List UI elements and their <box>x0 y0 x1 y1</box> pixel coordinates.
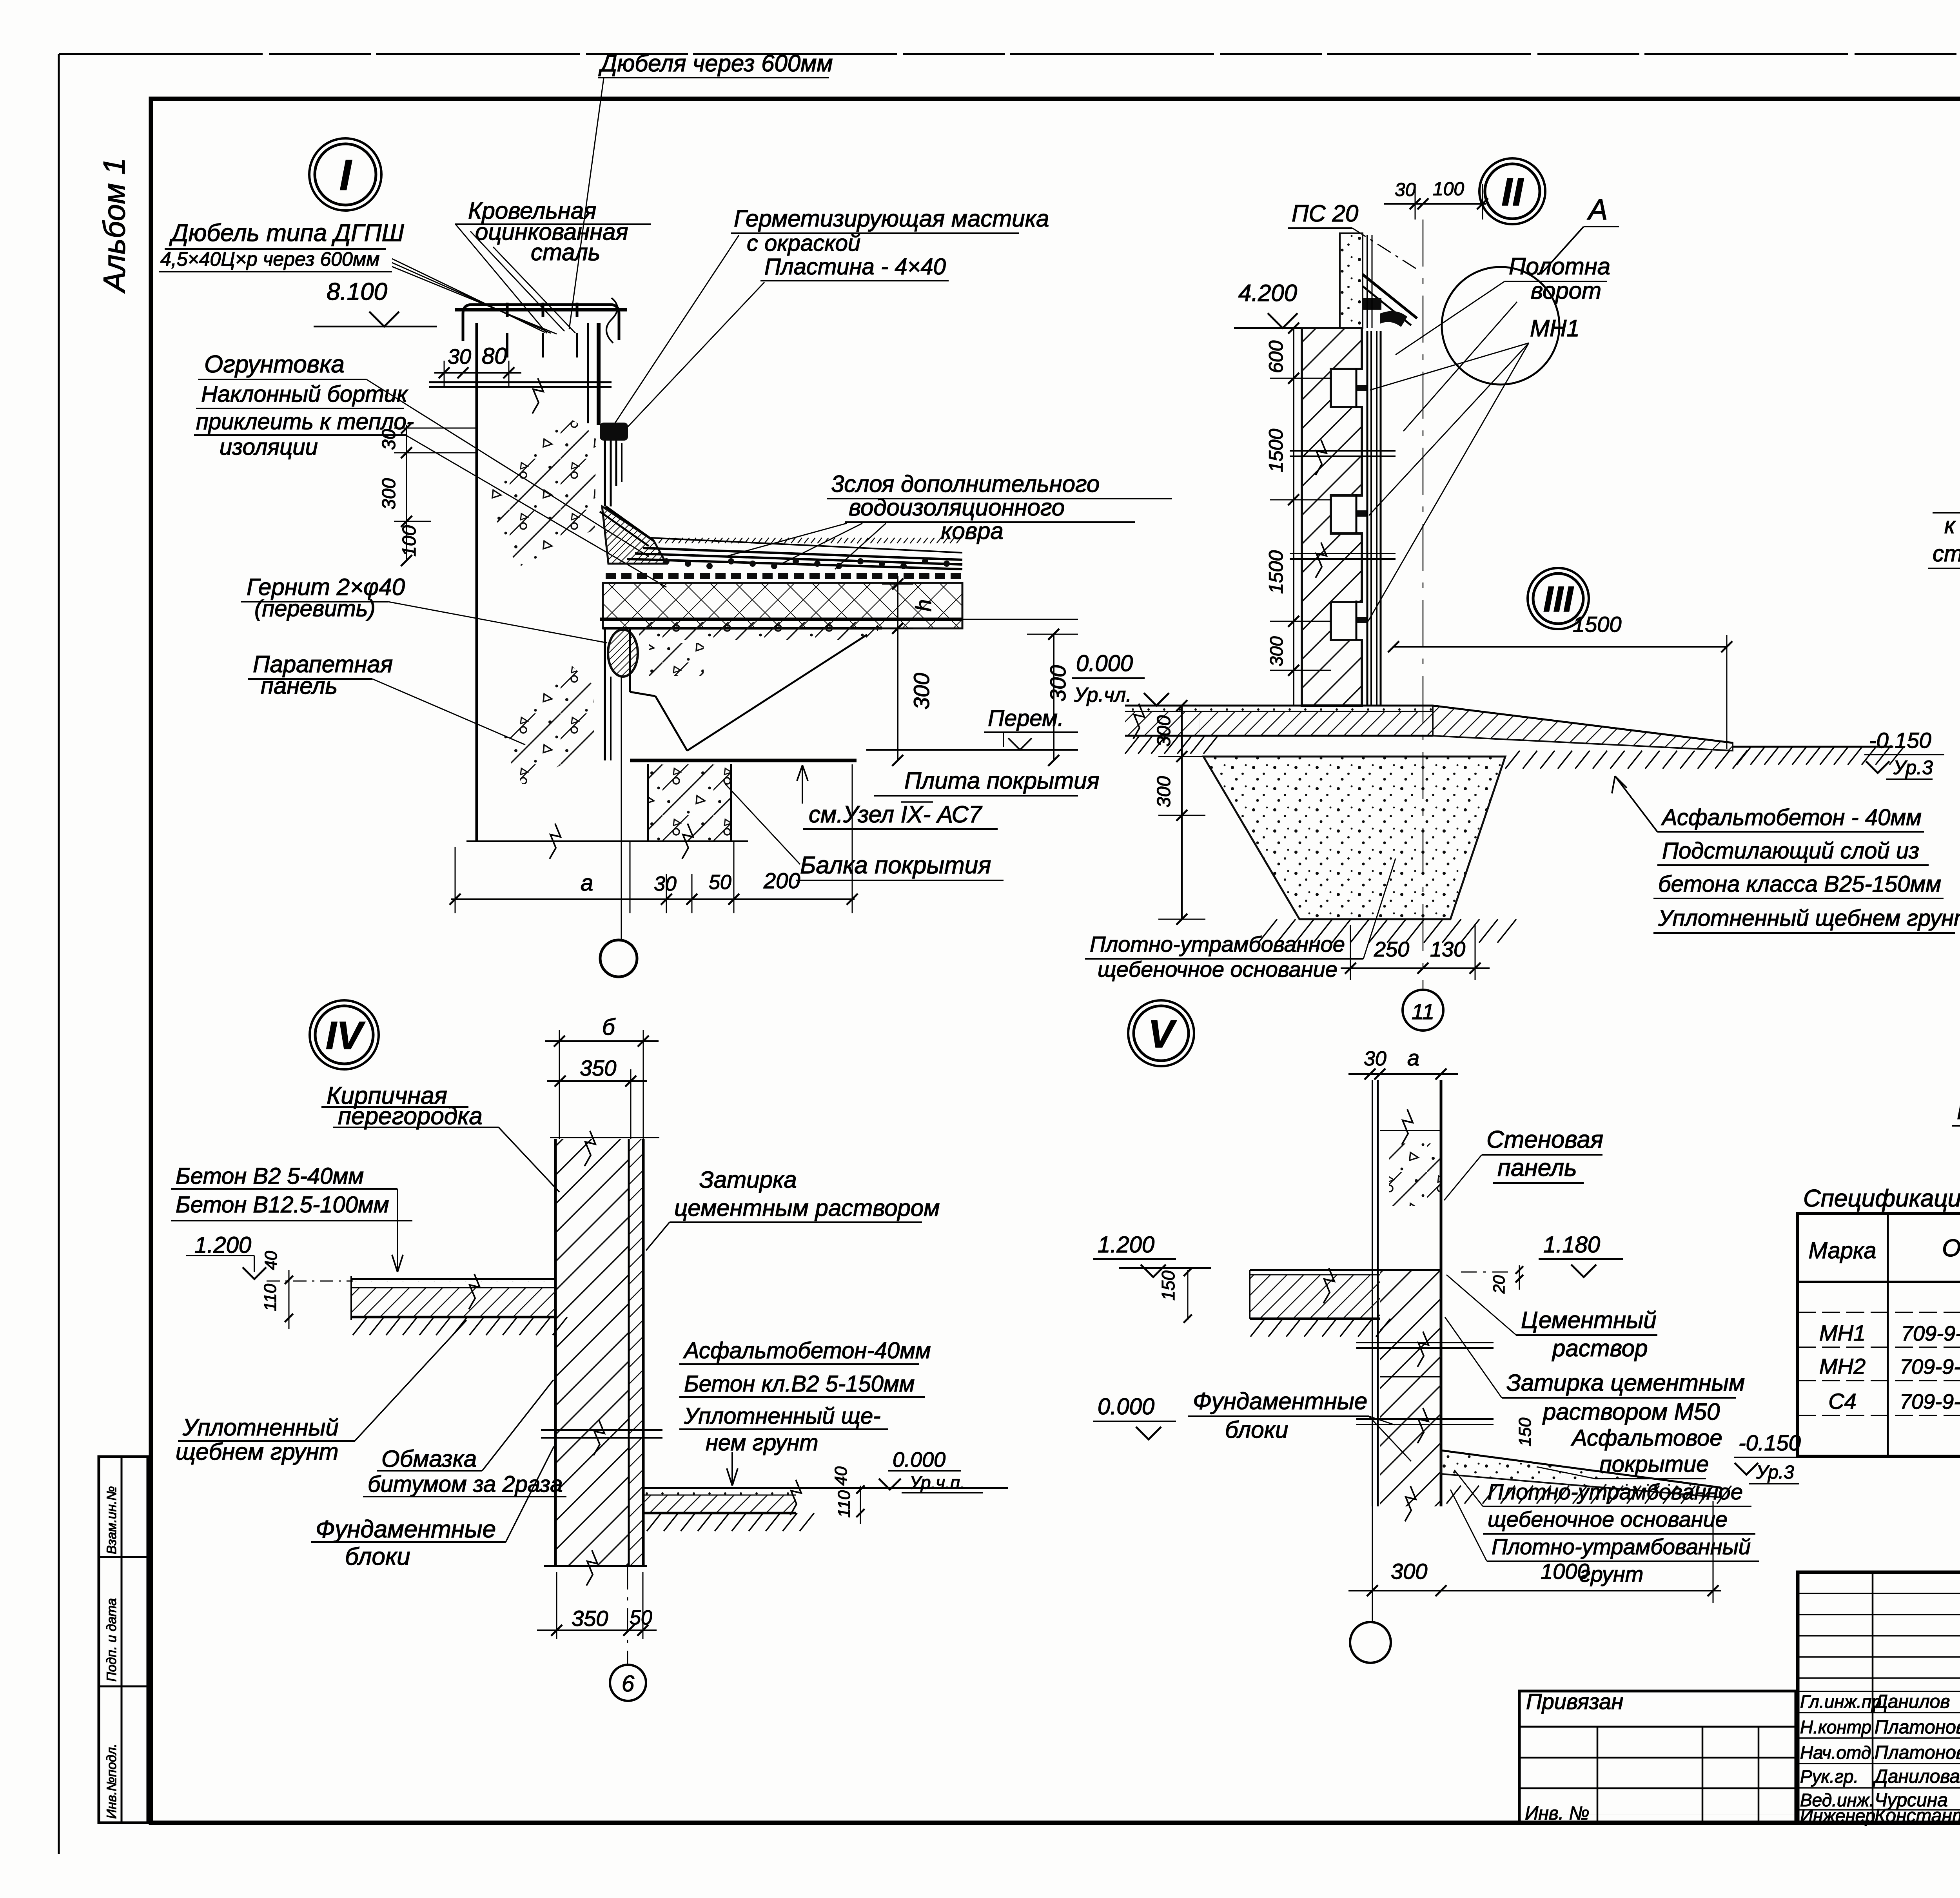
svg-text:Полотно: Полотно <box>1957 1098 1960 1124</box>
svg-text:30: 30 <box>1364 1047 1387 1070</box>
svg-text:Асфальтобетон - 40мм: Асфальтобетон - 40мм <box>1661 805 1922 830</box>
floor slab left (V) <box>1250 1269 1441 1271</box>
svg-text:150: 150 <box>1515 1417 1535 1446</box>
svg-text:Цементный: Цементный <box>1521 1307 1657 1333</box>
svg-text:V: V <box>1148 1012 1177 1056</box>
sloping apron right of wall <box>1433 706 1733 751</box>
left vertical dim chain of II <box>1293 328 1294 706</box>
parapet cap (rounded) <box>463 305 619 341</box>
concrete texture patch lower <box>492 662 594 784</box>
svg-text:МН1: МН1 <box>1530 315 1580 341</box>
ground hatch under foundation <box>1258 919 1277 943</box>
wall joint breaks (V) <box>1356 1342 1494 1343</box>
svg-text:350: 350 <box>572 1606 608 1631</box>
svg-text:-0.150: -0.150 <box>1739 1430 1801 1455</box>
svg-text:11: 11 <box>1412 999 1434 1024</box>
svg-text:1500: 1500 <box>1265 429 1287 472</box>
node circle (V) <box>1405 1486 1416 1521</box>
svg-text:водоизоляционного: водоизоляционного <box>849 494 1065 521</box>
svg-text:Фундаментные: Фундаментные <box>316 1516 496 1543</box>
svg-text:300: 300 <box>1045 665 1070 702</box>
svg-text:30: 30 <box>1395 180 1416 200</box>
svg-text:0.000: 0.000 <box>1098 1394 1154 1419</box>
svg-text:покрытие: покрытие <box>1599 1452 1709 1477</box>
outer thin margin border <box>59 53 1960 55</box>
right dim h/300 <box>897 576 898 760</box>
svg-text:Уплотненный щебнем грунт: Уплотненный щебнем грунт <box>1658 905 1960 931</box>
svg-text:Нач.отд.: Нач.отд. <box>1800 1742 1876 1763</box>
svg-text:20: 20 <box>1490 1275 1508 1294</box>
svg-text:битумом за 2раза: битумом за 2раза <box>368 1472 563 1497</box>
svg-text:сталь: сталь <box>531 239 600 265</box>
detail II marker circle <box>1479 158 1545 224</box>
right dim 300 slab <box>1053 634 1054 760</box>
below-zero dim chain <box>1181 706 1183 919</box>
svg-text:щебнем грунт: щебнем грунт <box>176 1439 339 1465</box>
svg-text:40: 40 <box>831 1466 851 1486</box>
svg-text:панель: панель <box>1497 1154 1577 1181</box>
svg-text:Инв.№подл.: Инв.№подл. <box>104 1744 119 1819</box>
svg-text:Уплотненный: Уплотненный <box>182 1414 339 1441</box>
wall bottom edge <box>544 1565 647 1567</box>
leaders from dowel label to cap <box>392 259 545 332</box>
svg-text:100: 100 <box>399 525 420 557</box>
svg-text:30: 30 <box>379 429 399 450</box>
svg-text:нем грунт: нем грунт <box>706 1430 818 1455</box>
svg-text:300: 300 <box>1154 715 1174 747</box>
svg-text:Данилов: Данилов <box>1873 1691 1950 1712</box>
svg-text:30: 30 <box>654 873 677 895</box>
svg-text:4.200: 4.200 <box>1238 280 1297 306</box>
svg-text:Обмазка: Обмазка <box>381 1446 477 1472</box>
svg-text:Ур.ч.п.: Ур.ч.п. <box>909 1472 965 1493</box>
beam below slab <box>648 764 731 841</box>
svg-text:0.000: 0.000 <box>893 1448 946 1472</box>
parapet wall panel <box>475 323 478 841</box>
svg-text:Подстилающий слой из: Подстилающий слой из <box>1662 838 1919 864</box>
membrane seam blobs <box>663 558 670 564</box>
svg-text:а: а <box>1407 1045 1419 1070</box>
svg-text:Плотно-утрамбованное: Плотно-утрамбованное <box>1090 932 1345 956</box>
node circle 6 <box>627 1566 628 1665</box>
svg-text:4,5×40Ц×р через 600мм: 4,5×40Ц×р через 600мм <box>160 248 379 270</box>
svg-text:1500: 1500 <box>1265 550 1287 594</box>
svg-text:Подп. и дата: Подп. и дата <box>104 1598 119 1682</box>
svg-text:40: 40 <box>261 1251 281 1270</box>
insulation crosshatch band <box>603 583 962 628</box>
title block frame <box>1798 1572 1960 1823</box>
svg-text:300: 300 <box>909 673 934 709</box>
svg-text:Балка покрытия: Балка покрытия <box>800 852 991 879</box>
svg-text:Затирка: Затирка <box>699 1167 797 1193</box>
svg-text:Дюбель типа ДГПШ: Дюбель типа ДГПШ <box>169 220 405 247</box>
svg-text:б: б <box>602 1014 616 1040</box>
svg-text:Обозначение: Обозначение <box>1942 1235 1960 1262</box>
svg-text:панель: панель <box>261 673 338 699</box>
vapor barrier dash band <box>606 573 616 579</box>
svg-text:Ур.чл.: Ур.чл. <box>1074 684 1132 706</box>
detail A callout circle <box>1442 267 1559 385</box>
svg-text:Инженер: Инженер <box>1800 1805 1875 1826</box>
svg-text:Рук.гр.: Рук.гр. <box>1800 1766 1858 1787</box>
membrane layers <box>643 548 962 560</box>
privyazan block <box>1519 1691 1796 1823</box>
svg-text:Платонова: Платонова <box>1875 1717 1960 1738</box>
svg-text:перегородка: перегородка <box>338 1103 483 1130</box>
signature row lines <box>1798 1691 1960 1692</box>
svg-text:350: 350 <box>580 1056 616 1080</box>
svg-text:709-9-80.87Ал.2АСИ-0047: 709-9-80.87Ал.2АСИ-0047 <box>1900 1390 1960 1414</box>
title block left empty grid rows <box>1798 1593 1960 1594</box>
svg-text:Фундаментные: Фундаментные <box>1193 1388 1367 1414</box>
embedded anchors in notches <box>1356 368 1357 408</box>
ledge double line <box>429 381 612 383</box>
svg-text:Герметизирующая мастика: Герметизирующая мастика <box>734 205 1049 232</box>
svg-text:Наклонный бортик: Наклонный бортик <box>201 381 408 407</box>
node circle below detail I <box>621 677 622 940</box>
title block left grid columns <box>1872 1572 1874 1823</box>
svg-text:Бетон В12.5-100мм: Бетон В12.5-100мм <box>176 1192 389 1218</box>
cap fastener ticks <box>506 303 509 317</box>
svg-text:Бетон кл.В2 5-150мм: Бетон кл.В2 5-150мм <box>684 1371 915 1397</box>
svg-text:цементным раствором: цементным раствором <box>674 1195 940 1221</box>
svg-text:стеновой панели: стеновой панели <box>1933 541 1960 566</box>
svg-text:см.Узел IX- АС7: см.Узел IX- АС7 <box>809 801 983 827</box>
flashing verticals in joint <box>604 441 606 506</box>
svg-text:Плита покрытия: Плита покрытия <box>904 768 1100 794</box>
svg-text:II: II <box>1501 170 1524 214</box>
svg-text:С4: С4 <box>1828 1389 1857 1414</box>
svg-text:Асфальтобетон-40мм: Асфальтобетон-40мм <box>683 1338 931 1363</box>
svg-text:блоки: блоки <box>1225 1417 1288 1443</box>
svg-text:ПС 20: ПС 20 <box>1292 200 1358 227</box>
svg-text:Ур.3: Ур.3 <box>1893 757 1933 778</box>
detail III marker circle <box>1528 568 1589 629</box>
break lines across wall <box>1290 450 1396 452</box>
svg-text:300: 300 <box>379 478 399 510</box>
svg-text:a: a <box>581 870 593 896</box>
svg-text:300: 300 <box>1266 636 1287 666</box>
svg-text:Уплотненный ще-: Уплотненный ще- <box>684 1403 881 1429</box>
svg-text:709-9-80.87Ал.2АСИ-0035: 709-9-80.87Ал.2АСИ-0035 <box>1900 1355 1960 1379</box>
svg-text:Бетон В2 5-40мм: Бетон В2 5-40мм <box>176 1163 364 1189</box>
svg-text:Н.контр: Н.контр <box>1800 1717 1871 1737</box>
svg-text:100: 100 <box>1433 179 1464 200</box>
svg-text:250: 250 <box>1374 938 1409 961</box>
foundation trapezoid <box>1203 757 1505 919</box>
cant strip hatched wedge <box>602 506 666 564</box>
gernit oval seal <box>608 630 638 677</box>
svg-text:III: III <box>1543 579 1574 619</box>
svg-text:110: 110 <box>835 1490 854 1518</box>
svg-text:Платонова: Платонова <box>1875 1742 1960 1763</box>
PS20 strip above wall <box>1340 233 1363 328</box>
flashing slope lines <box>606 506 654 541</box>
upper panel part hatch <box>1380 1130 1441 1131</box>
concrete texture patch upper <box>482 412 598 568</box>
svg-text:(перевить): (перевить) <box>254 596 376 621</box>
floor slab left of wall (IV) <box>351 1278 555 1280</box>
svg-text:бетона класса В25-150мм: бетона класса В25-150мм <box>1658 871 1941 897</box>
svg-text:30: 30 <box>448 345 471 368</box>
svg-text:0.000: 0.000 <box>1076 651 1133 676</box>
svg-text:Перем.: Перем. <box>988 706 1064 731</box>
svg-text:8.100: 8.100 <box>327 278 387 305</box>
svg-text:Взам.ин.№: Взам.ин.№ <box>104 1486 119 1554</box>
svg-text:50: 50 <box>709 871 731 894</box>
ground line right <box>1733 746 1893 748</box>
left stamp column <box>99 1457 148 1823</box>
apron right of wall (V) <box>1441 1450 1721 1497</box>
svg-text:Инв. №: Инв. № <box>1525 1803 1589 1824</box>
svg-text:Асфальтовое: Асфальтовое <box>1571 1425 1722 1451</box>
witness lines top <box>559 1030 560 1139</box>
svg-text:300: 300 <box>1154 776 1174 807</box>
svg-text:Плотно-утрамбованный: Плотно-утрамбованный <box>1492 1534 1751 1559</box>
svg-text:Ур.3: Ур.3 <box>1756 1462 1794 1483</box>
slab bottom and haunch <box>630 759 857 762</box>
svg-text:200: 200 <box>763 868 800 893</box>
svg-text:Данилова: Данилова <box>1873 1766 1960 1787</box>
svg-text:IV: IV <box>326 1014 366 1058</box>
svg-text:6: 6 <box>622 1671 635 1697</box>
bottom dim chain a 30 50 200 <box>451 898 855 900</box>
svg-text:Гл.инж.пр: Гл.инж.пр <box>1800 1691 1882 1712</box>
svg-text:Полотна: Полотна <box>1509 253 1610 279</box>
svg-text:ворот: ворот <box>1531 278 1601 304</box>
apron slab left of wall <box>1125 705 1433 707</box>
svg-text:1500: 1500 <box>1573 612 1622 637</box>
svg-text:300: 300 <box>1391 1559 1427 1584</box>
detail I marker circle <box>309 138 381 210</box>
svg-text:Стеновая: Стеновая <box>1486 1126 1603 1153</box>
svg-text:Огрунтовка: Огрунтовка <box>204 351 345 378</box>
wall pier hatched <box>1302 328 1362 706</box>
centerline and node 11 <box>1423 220 1424 990</box>
svg-text:h: h <box>911 599 936 611</box>
gate flashing wedge at top <box>1363 274 1417 318</box>
bottom break line of detail <box>466 840 748 842</box>
slab concrete strip with texture <box>639 622 878 640</box>
gate leaf lines <box>1367 331 1368 706</box>
svg-text:с окраской: с окраской <box>747 230 860 256</box>
svg-text:600: 600 <box>1265 340 1287 373</box>
svg-text:раствор: раствор <box>1552 1335 1648 1361</box>
svg-text:Марка: Марка <box>1808 1238 1876 1263</box>
svg-text:Плотно-утрамбованное: Плотно-утрамбованное <box>1488 1479 1743 1504</box>
detail IV marker circle <box>310 1000 379 1069</box>
svg-text:ковра: ковра <box>941 518 1004 544</box>
svg-text:1.200: 1.200 <box>1098 1232 1154 1257</box>
floor slab right of wall (IV lower) <box>643 1487 1008 1489</box>
slab top thick line <box>600 618 962 621</box>
svg-text:Дюбеля через 600мм: Дюбеля через 600мм <box>598 50 833 76</box>
svg-text:МН1: МН1 <box>1819 1321 1866 1345</box>
svg-text:щебеночное основание: щебеночное основание <box>1098 957 1338 982</box>
svg-text:раствором М50: раствором М50 <box>1542 1399 1720 1425</box>
svg-text:Привязан: Привязан <box>1526 1689 1623 1714</box>
cap break wave <box>606 298 617 343</box>
svg-text:изоляции: изоляции <box>220 434 318 460</box>
svg-text:А: А <box>1587 193 1608 226</box>
svg-text:709-9-80.87Ал.2АСИ-0034: 709-9-80.87Ал.2АСИ-0034 <box>1901 1322 1960 1345</box>
svg-text:блоки: блоки <box>345 1543 410 1570</box>
svg-text:150: 150 <box>1158 1270 1178 1301</box>
wall joint break pair <box>541 1429 662 1431</box>
left vertical dim chain <box>406 425 407 561</box>
svg-text:щебеночное основание: щебеночное основание <box>1488 1507 1728 1531</box>
detail V marker circle <box>1128 1000 1194 1066</box>
svg-text:Альбом 1: Альбом 1 <box>97 158 131 294</box>
mastic joint black anchor <box>600 423 628 441</box>
svg-text:130: 130 <box>1430 938 1465 961</box>
svg-text:Спецификация закладных изделий: Спецификация закладных изделий по архите… <box>1803 1185 1960 1212</box>
svg-text:1.180: 1.180 <box>1543 1232 1600 1257</box>
svg-text:к закладной: к закладной <box>1944 513 1960 538</box>
brick wall band <box>555 1139 629 1566</box>
svg-text:Затирка цементным: Затирка цементным <box>1506 1370 1745 1396</box>
slab body joint lines <box>604 628 606 760</box>
svg-text:110: 110 <box>261 1283 280 1311</box>
svg-text:80: 80 <box>482 343 507 369</box>
svg-text:Пластина - 4×40: Пластина - 4×40 <box>764 254 946 279</box>
roof top gravel line with tiny ticks <box>651 538 962 553</box>
svg-text:I: I <box>339 151 352 200</box>
svg-text:1.200: 1.200 <box>194 1232 251 1258</box>
svg-text:Константинова: Константинова <box>1875 1805 1960 1826</box>
wall panel lines <box>1372 1080 1373 1506</box>
svg-text:МН2: МН2 <box>1819 1354 1866 1379</box>
svg-text:3слоя дополнительного: 3слоя дополнительного <box>831 471 1100 497</box>
spec table frame <box>1798 1214 1960 1456</box>
svg-text:-0.150: -0.150 <box>1869 728 1931 753</box>
svg-text:1000: 1000 <box>1541 1559 1590 1584</box>
